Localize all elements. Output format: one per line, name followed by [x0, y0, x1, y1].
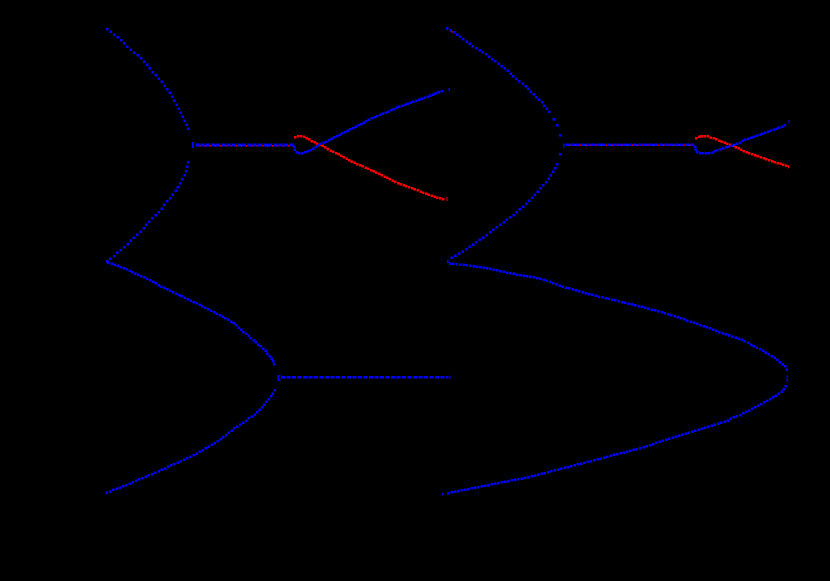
- blue end tick L8: [105, 492, 106, 495]
- red fleck at R1 start: [451, 31, 453, 33]
- blue horizontal line 1 right: [566, 144, 695, 147]
- blue end tick R3: [788, 120, 789, 124]
- blue lower arc R6: [449, 263, 788, 372]
- red end tick L4: [446, 197, 447, 201]
- corner marker right: [447, 260, 450, 263]
- blue end tick R7: [442, 493, 443, 496]
- fold marker double bar right-lower: [787, 375, 789, 381]
- red unstable branch R4: [695, 135, 788, 167]
- blue dip-rise L3: [293, 90, 443, 155]
- blue mid arm L5: [109, 161, 190, 260]
- blue R5 fold-approach dot: [559, 153, 562, 156]
- blue end tick hline2: [450, 376, 451, 380]
- blue start dot L1: [106, 28, 107, 30]
- blue lower arc L8: [106, 389, 277, 494]
- blue dip-rise R3: [694, 124, 786, 155]
- red unstable branch L4: [294, 135, 445, 201]
- red end tick R4: [788, 165, 789, 168]
- blue L6 vertex-approach dot: [273, 363, 276, 366]
- blue lower arc L6: [107, 262, 275, 363]
- blue arc R1: [446, 27, 551, 113]
- blue start tick R1: [447, 27, 448, 30]
- corner marker left: [106, 260, 109, 263]
- blue arc L1: [106, 28, 190, 130]
- blue lower arc R7: [447, 385, 787, 495]
- fold marker bracket left-lower: [278, 375, 281, 381]
- blue arc R1 fold-approach dots: [553, 118, 562, 137]
- blue horizontal line 1 left: [195, 144, 293, 147]
- fold marker bar right-upper: [563, 144, 565, 148]
- blue horizontal line 2: [281, 376, 448, 378]
- blue end tick L3: [449, 88, 450, 91]
- fold marker bar left-upper: [192, 142, 194, 148]
- blue mid arm R5: [451, 163, 559, 259]
- red branch under right horizontal line: [566, 144, 695, 146]
- red branch under left horizontal line: [196, 145, 294, 147]
